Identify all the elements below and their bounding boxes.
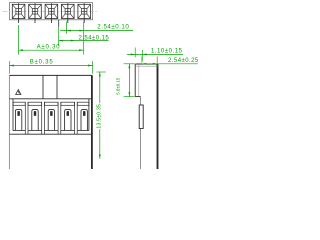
- front view cell 1 (clamp bar + wire slot): [13, 102, 25, 130]
- front view cell wall 3: [58, 102, 61, 134]
- front view right edge (thick): [91, 75, 93, 169]
- front view inner wall right: [88, 99, 90, 131]
- side view hidden line: [138, 64, 140, 97]
- top view terminal position 4 (screw opening): [62, 3, 75, 23]
- svg-text:1.10±0.15: 1.10±0.15: [151, 48, 183, 54]
- top view body outline: [9, 3, 92, 20]
- svg-text:13.5±0.35: 13.5±0.35: [97, 104, 103, 129]
- front view cell wall 1: [25, 102, 28, 134]
- top view terminal position 2 (screw opening): [29, 3, 42, 23]
- side view top edge: [135, 63, 158, 65]
- svg-text:2.54±0.10: 2.54±0.10: [97, 23, 129, 30]
- front view cell 4 (clamp bar + wire slot): [61, 102, 75, 130]
- extension line from position 4 center: [66, 22, 68, 34]
- extension line (front view wall): [58, 20, 60, 46]
- dimension 1.10±0.15 (flange width): [127, 48, 183, 62]
- extension line from position 1 center: [18, 25, 20, 55]
- polarity triangle marker: [16, 90, 21, 95]
- dimension A±0.30 (pin span): [19, 45, 84, 51]
- dimension B±0.35 (overall length): [9, 59, 92, 73]
- side view inner top line: [136, 65, 157, 67]
- front view cell 3 (clamp bar + wire slot): [44, 102, 58, 130]
- front view inner wall left: [12, 99, 14, 131]
- front view cell 2 (clamp bar + wire slot): [28, 102, 42, 130]
- dimension 2.54±0.10 (terminal pitch): [60, 23, 133, 31]
- front view top edge: [9, 74, 92, 76]
- svg-text:2.54±0.15: 2.54±0.15: [79, 35, 110, 41]
- svg-text:B±0.35: B±0.35: [30, 59, 54, 65]
- dimension 2.54±0.25 (body thickness): [142, 57, 199, 68]
- side view right edge (thick): [157, 64, 159, 169]
- dimension 2.54±0.15 (slot pitch): [59, 35, 110, 41]
- side view solder pin: [139, 105, 143, 129]
- front view band bottom line: [9, 98, 92, 100]
- side view step: [135, 96, 140, 98]
- top view horizontal centerline: [3, 10, 98, 12]
- dimension 5.0±0.15 (step height): [115, 64, 134, 97]
- svg-text:A±0.30: A±0.30: [37, 45, 61, 51]
- dimension 13.5±0.35 (overall height): [97, 72, 106, 159]
- front view top band divider 2: [56, 75, 58, 98]
- front view cell 5 (clamp bar + wire slot): [77, 102, 89, 130]
- front view lower shelf line: [9, 133, 92, 135]
- front view cell wall 4: [75, 102, 78, 134]
- front view left edge: [8, 75, 10, 169]
- top view terminal position 1 (screw opening): [12, 3, 25, 23]
- front view top band divider 1: [42, 75, 44, 98]
- top view terminal position 5 (screw opening): [78, 3, 91, 23]
- top view terminal position 3 (screw opening): [45, 3, 58, 23]
- side view upper left edge: [134, 64, 136, 97]
- side view lower left edge: [140, 97, 142, 169]
- svg-text:2.54±0.25: 2.54±0.25: [168, 58, 199, 64]
- front view cell wall 2: [42, 102, 45, 134]
- svg-text:5.0±0.15: 5.0±0.15: [115, 77, 120, 95]
- extension line from position 5 center: [83, 22, 85, 55]
